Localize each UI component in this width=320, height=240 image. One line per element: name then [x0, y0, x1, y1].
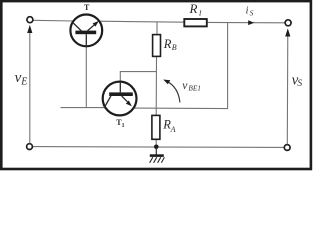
svg-text:i: i — [246, 6, 249, 17]
current arrow iS — [248, 20, 254, 25]
terminal: input bottom — [27, 144, 33, 150]
terminal: output bottom — [284, 145, 290, 151]
svg-text:I: I — [198, 9, 202, 18]
wire: top rail left segment — [33, 19, 74, 22]
resistor RB — [153, 35, 161, 57]
svg-text:BE1: BE1 — [188, 84, 201, 93]
svg-text:R: R — [189, 1, 198, 16]
wire: RA bottom to ground node — [155, 139, 157, 147]
svg-text:R: R — [163, 37, 172, 51]
svg-text:v: v — [182, 80, 188, 92]
resistor RA — [152, 115, 160, 139]
wire: top rail right segment (RI to output terminal) — [206, 21, 285, 23]
voltage arrow vBE1 (curved) — [163, 80, 180, 103]
voltage arrow vS — [285, 28, 290, 144]
wire: T base lead down to node with T1 collector — [85, 46, 87, 107]
svg-text:S: S — [297, 79, 302, 89]
wire: bottom rail — [33, 146, 285, 149]
wire: top rail middle segment (T emitter to RI) — [99, 21, 185, 22]
wire: vertical RB bottom to RA top (through T1 base node) — [155, 56, 157, 115]
svg-text:S: S — [250, 9, 254, 18]
ground — [150, 145, 165, 163]
resistor RI — [184, 19, 207, 26]
wire: T1 emitter to right vertical up to top rail — [134, 22, 228, 108]
svg-text:E: E — [20, 76, 27, 87]
svg-text:A: A — [170, 125, 176, 134]
terminal: output top — [285, 20, 291, 26]
svg-text:T: T — [84, 3, 90, 12]
transistor T — [70, 15, 102, 47]
svg-text:B: B — [172, 43, 177, 52]
svg-text:1: 1 — [122, 123, 125, 129]
terminal: input top — [27, 17, 33, 23]
voltage arrow vE — [27, 25, 32, 143]
transistor T1 — [103, 82, 137, 116]
wire: T1 base connection (up and right to RB line) — [120, 72, 156, 82]
wire: horizontal node wire to T1 collector — [61, 107, 106, 109]
wire: RB stub from top rail — [156, 22, 158, 35]
